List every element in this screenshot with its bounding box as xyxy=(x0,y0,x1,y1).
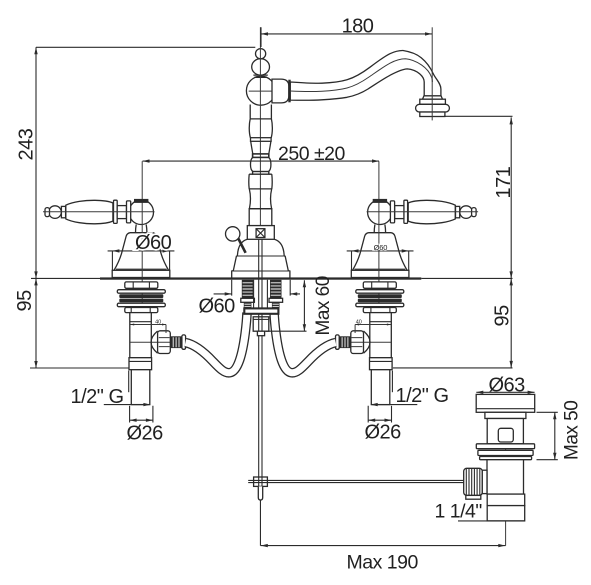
svg-text:Ø26: Ø26 xyxy=(127,423,164,445)
diverter knob xyxy=(226,227,240,241)
spout hub ball xyxy=(246,76,275,105)
stud right threaded xyxy=(270,280,282,299)
cartridge housing xyxy=(249,209,272,226)
column section 3 taper xyxy=(251,141,271,154)
dim Ø60 center xyxy=(214,280,300,296)
dim 171 line xyxy=(444,116,513,278)
dim 250 line xyxy=(143,160,380,162)
svg-text:Ø26: Ø26 xyxy=(365,422,402,444)
svg-text:Ø60: Ø60 xyxy=(199,296,236,318)
knurled nut xyxy=(464,468,483,495)
deck thin extension right xyxy=(421,277,512,279)
outlet ring 2 xyxy=(420,99,446,104)
spout column top knob xyxy=(256,49,266,59)
knurl tab xyxy=(466,495,481,499)
leader line 1 1/4 xyxy=(458,520,525,522)
stud collars xyxy=(241,298,255,302)
svg-text:Max 60: Max 60 xyxy=(313,276,334,335)
drain flange Ø63 xyxy=(476,394,535,412)
column section 1 xyxy=(250,105,272,119)
column ring xyxy=(251,138,272,142)
spout arm silhouette xyxy=(290,50,441,100)
outlet ring 1 xyxy=(423,96,443,99)
cap lines xyxy=(253,75,267,77)
column section 2 bulge xyxy=(249,119,272,138)
column section 4 xyxy=(249,174,273,189)
spout outlet vertical line xyxy=(431,27,433,120)
column bead 1 xyxy=(253,154,269,158)
deck thin extension left xyxy=(31,277,100,279)
dim 243 extension top xyxy=(36,46,255,48)
dim Max190 xyxy=(260,500,505,545)
svg-text:40: 40 xyxy=(356,319,362,325)
svg-text:Max 190: Max 190 xyxy=(347,552,419,574)
center shank lines xyxy=(254,280,268,309)
svg-text:180: 180 xyxy=(342,16,374,38)
right valve assembly (mirror) xyxy=(274,161,478,422)
horseshoe plate xyxy=(244,308,278,313)
central column centerline xyxy=(259,27,261,231)
column bead 2 xyxy=(253,172,269,175)
outlet rim xyxy=(420,112,445,117)
dim Max50 xyxy=(537,412,558,459)
spout column mid ball xyxy=(252,59,270,75)
rod lower stub xyxy=(258,486,262,500)
dim 180 line xyxy=(261,27,432,47)
drain centerline horizontal xyxy=(466,481,519,483)
svg-text:Max 50: Max 50 xyxy=(562,401,583,460)
drain centerline vertical xyxy=(505,396,507,546)
tailpiece lower xyxy=(487,506,525,521)
pop-up rod (vertical) xyxy=(259,228,262,486)
svg-text:95: 95 xyxy=(492,305,514,327)
dim Ø63 line xyxy=(476,391,534,393)
left valve assembly xyxy=(43,161,247,422)
svg-text:95: 95 xyxy=(14,290,36,312)
body bell xyxy=(232,239,290,277)
svg-text:1/2" G: 1/2" G xyxy=(396,385,449,407)
rod adjuster nut xyxy=(253,317,269,331)
svg-text:250 ±20: 250 ±20 xyxy=(278,143,345,165)
svg-text:1/2" G: 1/2" G xyxy=(71,386,124,408)
svg-text:171: 171 xyxy=(493,166,515,198)
diverter stem xyxy=(238,239,245,253)
set screw xyxy=(256,229,265,238)
svg-text:Ø60: Ø60 xyxy=(135,232,172,254)
dim 95 right line xyxy=(393,278,513,368)
stud left threaded xyxy=(242,280,254,299)
pop-up slot xyxy=(498,428,513,442)
dim 243 line xyxy=(35,47,37,278)
drain washer 1 xyxy=(476,444,534,449)
collar with set screw xyxy=(247,226,274,240)
dim 95 left line xyxy=(30,278,129,368)
drain lower body xyxy=(487,460,524,494)
column bulb xyxy=(250,157,270,171)
svg-text:243: 243 xyxy=(16,128,38,160)
drain upper body xyxy=(487,419,523,444)
drain washer 2 xyxy=(478,450,533,455)
tailpiece upper xyxy=(487,494,525,506)
drain washer 3 xyxy=(480,457,532,460)
thin studs xyxy=(244,302,252,308)
svg-text:Ø63: Ø63 xyxy=(489,374,526,396)
svg-text:Ø60: Ø60 xyxy=(374,243,388,252)
knurl side plate xyxy=(482,470,487,493)
column section 5 xyxy=(249,189,271,209)
drain neck xyxy=(485,412,526,418)
svg-text:1 1/4": 1 1/4" xyxy=(435,501,483,523)
adjuster tip xyxy=(257,331,264,336)
outlet bulge xyxy=(416,104,450,112)
dim Max60 line xyxy=(266,280,307,331)
spout socket xyxy=(272,79,289,103)
hub centerline xyxy=(249,90,290,92)
deck thick line xyxy=(100,277,421,279)
spout arm centerline xyxy=(290,59,432,92)
svg-text:40: 40 xyxy=(155,319,161,325)
rod square connector xyxy=(254,477,268,486)
horizontal pop-up rod xyxy=(248,480,464,482)
